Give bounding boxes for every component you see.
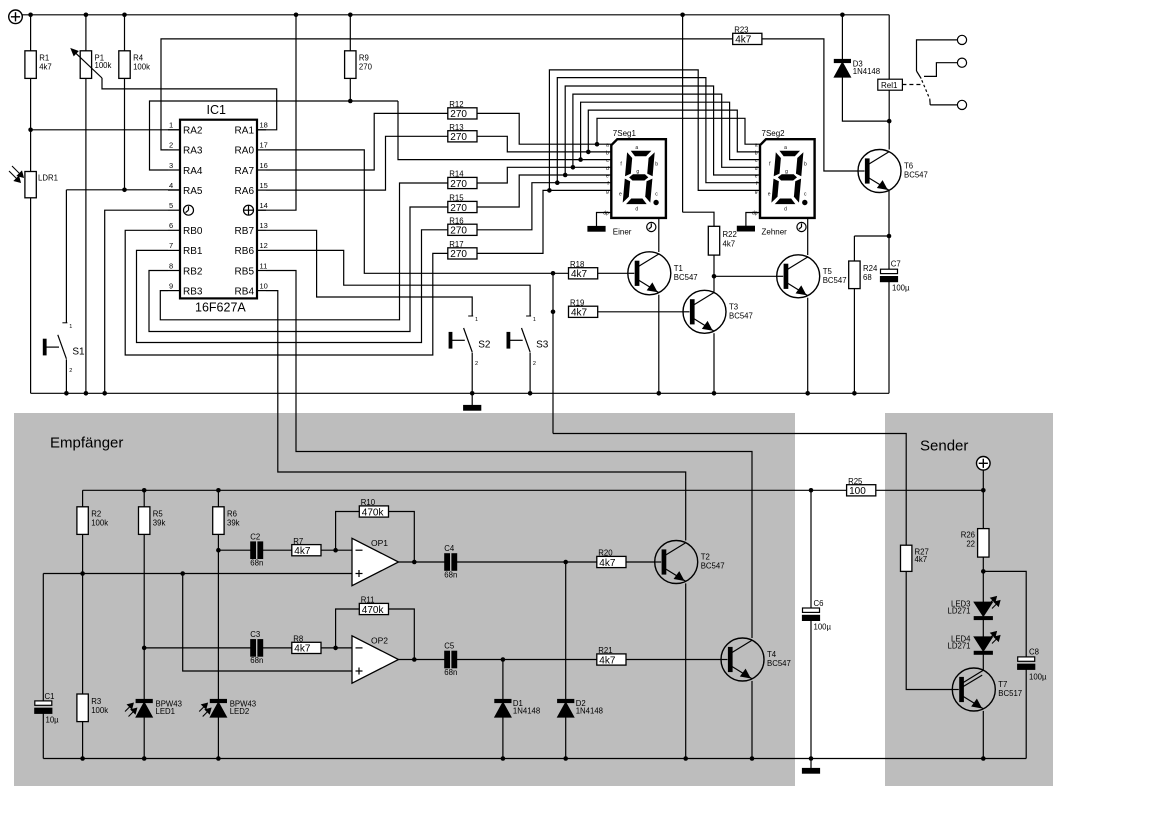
svg-text:BC547: BC547 [904, 171, 928, 180]
wire R27 to T7 base [906, 571, 952, 689]
junction [180, 571, 185, 576]
wire gnd bottom rail [43, 758, 1026, 760]
wire R6 to LED2 [217, 550, 219, 699]
svg-text:LDR1: LDR1 [38, 174, 58, 183]
wire 7Seg2 common to T5 [807, 218, 809, 255]
svg-text:R9: R9 [359, 54, 369, 63]
resistor R10 [359, 498, 388, 518]
wire R14 to seg d [477, 167, 611, 183]
wire R5 to LED1 [143, 648, 145, 700]
junction [657, 391, 662, 396]
wire D2 bottom [565, 717, 567, 759]
wire seg e bus to 7Seg2 [565, 86, 760, 175]
wire RA6 to R13 [266, 136, 448, 190]
wire R6 top [217, 490, 219, 507]
svg-text:2: 2 [475, 361, 478, 367]
svg-text:1N4148: 1N4148 [576, 707, 603, 716]
resistor R2 [77, 507, 108, 535]
svg-text:b: b [606, 150, 609, 156]
capacitor C7 [881, 260, 911, 293]
wire R24 top [853, 236, 855, 261]
svg-text:IC1: IC1 [207, 103, 227, 117]
wire R26 bottom [982, 557, 984, 571]
junction [142, 756, 147, 761]
wire R11 right [389, 609, 415, 660]
svg-text:RB2: RB2 [183, 266, 203, 277]
svg-text:RB0: RB0 [183, 226, 203, 237]
transistor T1 [628, 252, 698, 295]
svg-text:BC547: BC547 [767, 659, 791, 668]
IC U1 16F627A [180, 103, 257, 315]
junction [294, 13, 299, 18]
junction [852, 391, 857, 396]
svg-text:d: d [635, 207, 638, 213]
svg-text:12: 12 [260, 241, 268, 250]
wire RA7 to R12 [266, 113, 448, 170]
wire RA0 node down to sender row [552, 273, 554, 433]
wire R11 left [336, 609, 360, 648]
svg-text:68n: 68n [250, 559, 263, 568]
svg-text:4k7: 4k7 [723, 240, 736, 249]
junction [809, 488, 814, 493]
wire C8 bottom [1025, 669, 1027, 758]
photodiode LED1 BPW43 [125, 700, 182, 718]
pin 9 stub [168, 290, 180, 292]
resistor R13 [448, 123, 477, 143]
svg-text:Zehner: Zehner [762, 227, 788, 236]
pin 7 stub [168, 249, 180, 251]
svg-text:C8: C8 [1029, 648, 1039, 657]
wire R16 to seg f [477, 183, 611, 230]
pin 15 stub [257, 189, 266, 191]
junction [122, 13, 127, 18]
svg-text:d: d [606, 166, 609, 172]
display 7Seg1 [603, 129, 666, 236]
svg-text:1N4148: 1N4148 [513, 707, 540, 716]
svg-text:4k7: 4k7 [39, 63, 52, 72]
svg-text:100k: 100k [133, 63, 150, 72]
junction [142, 646, 147, 651]
svg-text:270: 270 [359, 63, 373, 72]
wire D1 top [502, 660, 504, 700]
svg-text:7Seg2: 7Seg2 [762, 129, 786, 138]
resistor R12 [448, 100, 477, 120]
wire Rel1 to T6 collector [888, 90, 890, 149]
svg-text:100k: 100k [91, 706, 108, 715]
junction [712, 274, 717, 279]
junction [712, 391, 717, 396]
wire 7Seg1 common to T1 [658, 218, 660, 252]
wire RA2 row [31, 129, 180, 131]
wire R24 bottom [853, 289, 855, 394]
svg-text:RA5: RA5 [183, 186, 203, 197]
capacitor C3 [250, 630, 263, 665]
junction [551, 310, 556, 315]
wire C5 to R21 [457, 659, 597, 661]
svg-text:LD271: LD271 [948, 642, 971, 651]
svg-text:13: 13 [260, 221, 268, 230]
pin 5 clock symbol [184, 205, 194, 215]
wire R5 bottom [143, 534, 145, 648]
wire S1 bottom [65, 359, 67, 393]
wire R5 top [143, 490, 145, 507]
pin 2 stub [168, 149, 180, 151]
svg-text:17: 17 [260, 141, 268, 150]
svg-text:2: 2 [533, 361, 536, 367]
pin 12 stub [257, 249, 266, 251]
svg-text:R2: R2 [91, 510, 101, 519]
resistor R14 [448, 170, 477, 190]
relay contact blade [917, 71, 922, 79]
junction seg g [547, 188, 552, 193]
junction [333, 646, 338, 651]
junction seg e [563, 173, 568, 178]
svg-text:T1: T1 [674, 264, 683, 273]
svg-text:68n: 68n [444, 570, 457, 579]
wire LED2 node to C2 [218, 549, 250, 551]
junction [551, 271, 556, 276]
svg-text:470k: 470k [362, 507, 385, 518]
wire R20 to T2 base [626, 561, 655, 563]
svg-text:LED2: LED2 [230, 707, 250, 716]
wire LED2 bottom [217, 717, 219, 759]
svg-text:6: 6 [169, 221, 173, 230]
svg-text:T4: T4 [767, 650, 777, 659]
wire R3 bottom [82, 722, 84, 759]
svg-text:2: 2 [169, 141, 173, 150]
wire LED1 bottom [143, 717, 145, 759]
pin 8 stub [168, 270, 180, 272]
resistor R22 [708, 226, 737, 255]
wire T3 emitter [713, 333, 715, 393]
svg-text:270: 270 [450, 179, 467, 190]
svg-text:d: d [755, 166, 758, 172]
svg-text:270: 270 [450, 226, 467, 237]
svg-text:R25: R25 [848, 477, 863, 486]
capacitor C4 [444, 544, 457, 579]
svg-text:RA2: RA2 [183, 126, 203, 137]
pin 11 stub [257, 270, 266, 272]
wire D3 top [841, 15, 843, 60]
capacitor C8 [1018, 648, 1047, 682]
wire LED1 node to C3 [144, 647, 251, 649]
svg-text:b: b [655, 162, 658, 168]
svg-text:g: g [755, 189, 758, 195]
wire R13 to seg b [477, 136, 611, 152]
junction [84, 13, 89, 18]
svg-text:a: a [784, 145, 787, 151]
svg-text:R1: R1 [39, 54, 49, 63]
wire C1 bottom [42, 713, 44, 758]
switch S2 [449, 316, 491, 367]
wire R15 to seg e [477, 175, 611, 207]
pin 3 stub [168, 169, 180, 171]
junction [80, 571, 85, 576]
svg-text:T7: T7 [998, 680, 1007, 689]
transistor T7 [952, 668, 1022, 711]
wire T1 emitter [658, 295, 660, 394]
resistor R23 [733, 26, 762, 46]
wire seg a bus to 7Seg2 [597, 118, 760, 144]
junction [887, 234, 892, 239]
wire RB2 to R15 [149, 207, 448, 332]
svg-text:R11: R11 [361, 596, 375, 605]
svg-text:R23: R23 [734, 26, 748, 35]
svg-text:1: 1 [169, 121, 173, 130]
svg-text:100: 100 [849, 486, 866, 497]
wire R22 top [683, 212, 714, 226]
resistor R6 [213, 507, 240, 535]
junction [528, 391, 533, 396]
svg-text:C7: C7 [891, 260, 901, 269]
svg-text:C3: C3 [250, 630, 260, 639]
svg-text:100µ: 100µ [1029, 673, 1047, 682]
svg-text:RA0: RA0 [235, 146, 255, 157]
svg-text:100µ: 100µ [892, 284, 910, 293]
resistor R11 [359, 596, 388, 616]
svg-text:4k7: 4k7 [294, 644, 311, 655]
switch S1 [43, 323, 85, 374]
resistor R17 [448, 240, 477, 260]
svg-text:39k: 39k [153, 519, 166, 528]
svg-text:b: b [804, 162, 807, 168]
diode D1 [495, 699, 540, 717]
pin 1 stub [168, 129, 180, 131]
wire R9 top [349, 15, 351, 51]
junction seg b [586, 150, 591, 155]
display 7Seg1 polarity mark [647, 222, 656, 231]
svg-text:1N4148: 1N4148 [853, 67, 880, 76]
ground [588, 227, 605, 232]
junction seg d [571, 165, 576, 170]
junction [412, 560, 417, 565]
svg-text:RA6: RA6 [235, 186, 255, 197]
svg-text:a: a [606, 143, 609, 149]
wire C1 top [42, 574, 44, 701]
svg-text:R3: R3 [91, 697, 101, 706]
wire OP2 out to C5 [399, 659, 445, 661]
wire P1 to gnd rail [85, 78, 87, 393]
terminal relay 2 [957, 58, 966, 67]
svg-text:RB4: RB4 [235, 286, 255, 297]
svg-text:BC517: BC517 [998, 689, 1022, 698]
wire receiver +rail left [83, 489, 847, 491]
svg-text:16: 16 [260, 161, 268, 170]
svg-text:S3: S3 [536, 340, 549, 351]
svg-text:g: g [785, 169, 788, 175]
svg-text:1: 1 [69, 324, 72, 330]
panel Empfaenger background [14, 413, 795, 786]
transistor T3 [683, 290, 753, 333]
wire seg c bus to 7Seg2 [581, 102, 760, 159]
relay coil Rel1 [878, 79, 903, 90]
wire R21 to T4 base [626, 659, 721, 661]
junction [84, 391, 89, 396]
wire seg f bus to 7Seg2 [557, 78, 760, 183]
wire R22 bottom [713, 255, 715, 276]
svg-text:d: d [784, 207, 787, 213]
pin 16 stub [257, 169, 266, 171]
display 7Seg2 polarity mark [797, 222, 806, 231]
resistor R26 [961, 529, 989, 558]
resistor R24 [849, 261, 878, 289]
svg-text:8: 8 [169, 261, 173, 270]
junction seg a [595, 142, 600, 147]
junction [28, 128, 33, 133]
svg-text:470k: 470k [362, 605, 385, 616]
wire RA5 row [66, 189, 180, 191]
svg-text:R12: R12 [449, 100, 463, 109]
wire receiver +rail right [875, 489, 983, 491]
svg-text:9: 9 [169, 281, 173, 290]
svg-text:Rel1: Rel1 [881, 81, 898, 90]
wire R4 to RA5 row [124, 78, 126, 189]
resistor R8 [292, 635, 321, 655]
junction [563, 756, 568, 761]
svg-text:39k: 39k [227, 519, 240, 528]
wire Rel1 dashed link [902, 84, 921, 86]
svg-text:15: 15 [260, 181, 268, 190]
wire RB4 to T2 collector [266, 291, 686, 541]
svg-text:RA3: RA3 [183, 146, 203, 157]
wire C7 bottom [888, 282, 890, 394]
wire OP1 out to C4 [399, 561, 445, 563]
wire R12 to seg a [477, 113, 611, 144]
svg-text:g: g [606, 189, 609, 195]
resistor R27 [901, 545, 929, 571]
svg-text:Empfänger: Empfänger [50, 435, 123, 452]
svg-text:R26: R26 [961, 531, 975, 540]
svg-text:e: e [755, 174, 758, 180]
junction seg f [555, 180, 560, 185]
svg-text:R22: R22 [723, 230, 737, 239]
svg-text:R14: R14 [449, 170, 464, 179]
capacitor C6 [803, 599, 832, 632]
wire seg b bus to 7Seg2 [588, 110, 760, 152]
wire T6 emitter [888, 190, 890, 236]
svg-text:4: 4 [169, 181, 173, 190]
wire R6 bottom [217, 534, 219, 550]
resistor R20 [597, 549, 626, 569]
wire 7Seg1 dp [597, 213, 612, 227]
svg-text:b: b [755, 150, 758, 156]
wire node c to 7Seg1 seg c [398, 101, 611, 160]
svg-text:OP1: OP1 [371, 538, 388, 548]
svg-text:R13: R13 [449, 123, 463, 132]
junction [981, 569, 986, 574]
wire pin14 to +V rail [257, 15, 296, 210]
wire T3 collector [713, 276, 715, 291]
svg-text:S1: S1 [72, 346, 85, 357]
svg-text:4k7: 4k7 [915, 555, 928, 564]
wire C4 to R20 [457, 561, 597, 563]
wire C6 gnd stem [810, 759, 812, 769]
pin 5 stub [168, 209, 180, 211]
svg-text:dp: dp [752, 211, 758, 217]
wire P1 top [85, 15, 87, 51]
junction [102, 391, 107, 396]
ground [737, 226, 754, 231]
svg-text:OP2: OP2 [371, 636, 388, 646]
power +V sender terminal [977, 457, 991, 471]
wire relay NC contact [924, 63, 958, 77]
svg-text:3: 3 [169, 161, 173, 170]
wire T2 emitter [685, 583, 687, 758]
wire C6 bottom [810, 620, 812, 758]
resistor R21 [597, 646, 626, 666]
wire RB5 to T4 collector [266, 271, 752, 639]
svg-text:R24: R24 [863, 264, 878, 273]
pin 4 stub [168, 189, 180, 191]
transistor T4 [721, 638, 791, 681]
wire RB1 to R16 [137, 230, 448, 343]
svg-text:RA4: RA4 [183, 166, 203, 177]
svg-text:BC547: BC547 [674, 273, 698, 282]
ground [803, 769, 820, 774]
svg-text:4k7: 4k7 [599, 655, 616, 666]
svg-text:T3: T3 [729, 302, 738, 311]
switch S3 [507, 316, 549, 367]
pin 18 stub [257, 129, 266, 131]
wire R26 top [982, 490, 984, 528]
wire seg g bus to 7Seg2 [549, 70, 760, 190]
svg-text:Einer: Einer [613, 227, 632, 236]
svg-text:68n: 68n [250, 656, 263, 665]
wire sender drive [553, 434, 906, 546]
svg-text:Sender: Sender [920, 438, 968, 455]
junction [216, 488, 221, 493]
wire LDR1 to gnd rail [30, 198, 32, 393]
junction [805, 391, 810, 396]
op-amp OP1 [352, 538, 399, 586]
capacitor C5 [444, 642, 457, 677]
resistor R7 [292, 537, 321, 557]
junction [142, 488, 147, 493]
transistor T6 [858, 150, 928, 193]
wire R18 to T1 base [598, 272, 628, 274]
junction [683, 756, 688, 761]
svg-text:BC547: BC547 [701, 562, 725, 571]
wire LED3 to LED4 [982, 620, 984, 638]
wire RA4 to R9 node [150, 101, 399, 170]
LED LED3 LD271 [948, 597, 1000, 620]
resistor R5 [139, 507, 166, 535]
svg-text:270: 270 [450, 203, 467, 214]
wire S3 bottom [529, 353, 531, 394]
wire C6 top [810, 490, 812, 608]
capacitor C1 [35, 692, 59, 725]
wire R1 top [30, 15, 32, 51]
svg-text:68n: 68n [444, 668, 457, 677]
wire R9 bottom [349, 78, 351, 101]
wire R4 top [124, 15, 126, 51]
svg-text:7: 7 [169, 241, 173, 250]
svg-text:S2: S2 [478, 340, 491, 351]
wire RB0 to R17 [125, 230, 448, 355]
wire T5 emitter [807, 298, 809, 394]
junction [216, 756, 221, 761]
junction [501, 657, 506, 662]
svg-text:4k7: 4k7 [571, 308, 588, 319]
photodiode LED2 BPW43 [199, 700, 256, 718]
junction [563, 560, 568, 565]
svg-text:270: 270 [450, 249, 467, 260]
ground [464, 406, 481, 411]
terminal relay 1 [957, 35, 966, 44]
pin 14 stub [257, 209, 266, 211]
svg-text:R18: R18 [570, 260, 584, 269]
wire R2 bottom [82, 534, 84, 573]
